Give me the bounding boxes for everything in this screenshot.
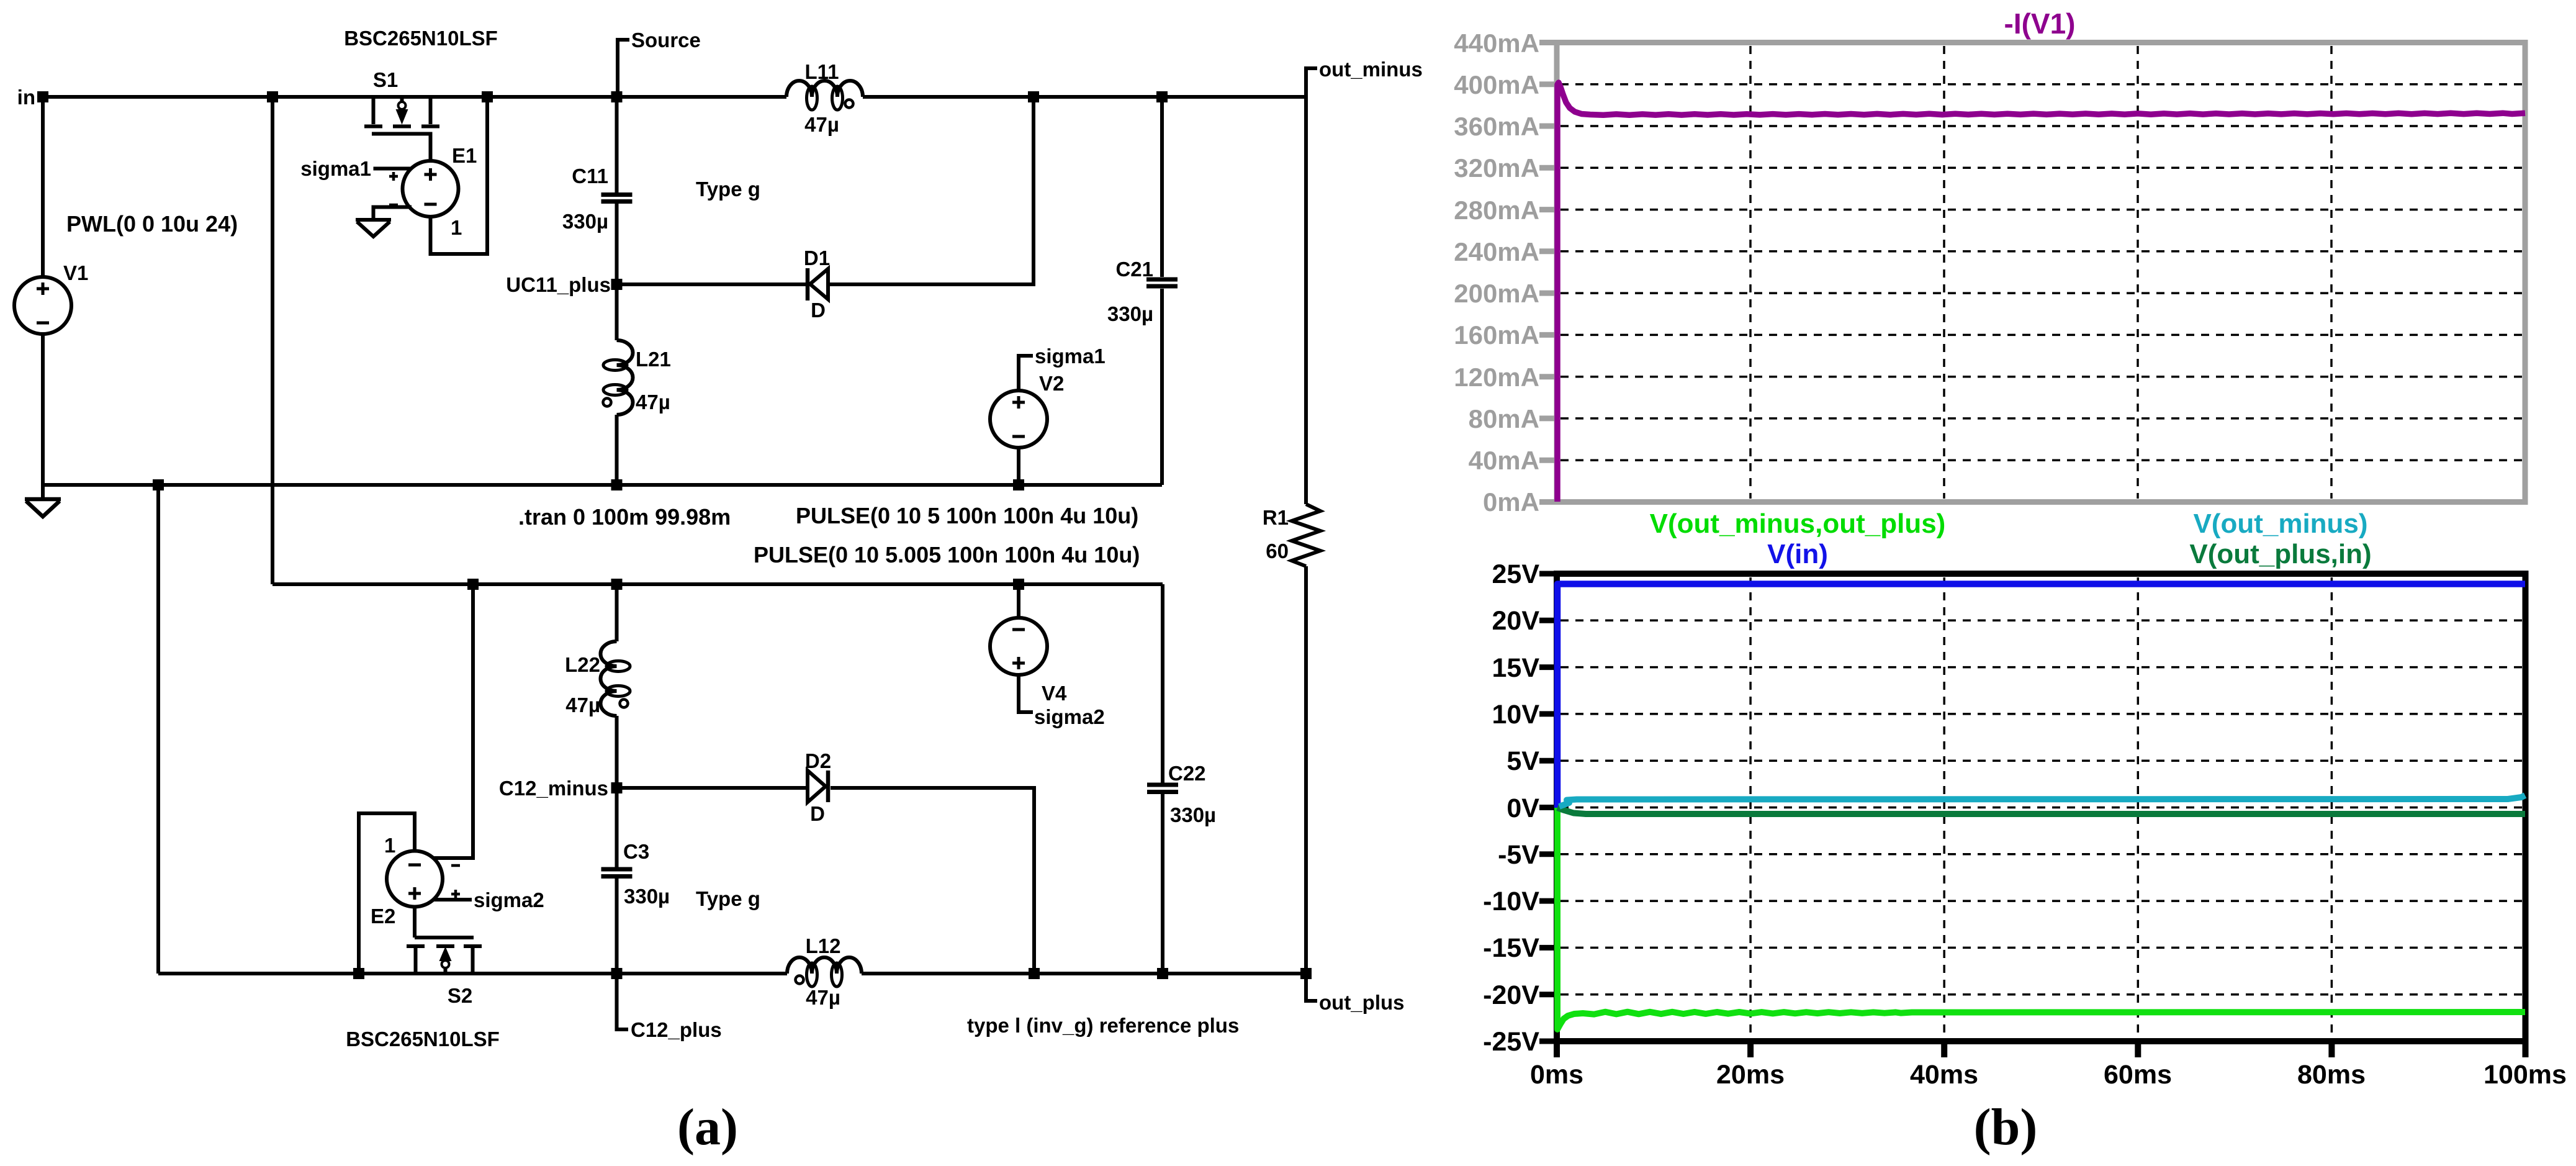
wire lower bottom rail right of L12 xyxy=(862,972,1306,975)
voltage source V1 xyxy=(14,277,71,334)
capacitor C11 xyxy=(601,195,633,202)
svg-text:440mA: 440mA xyxy=(1454,29,1539,58)
svg-text:C12_minus: C12_minus xyxy=(499,777,608,800)
wire top rail L11 to out_minus corner xyxy=(863,95,1306,99)
junction top rail x785 xyxy=(482,91,493,102)
wire S1 gate bar xyxy=(372,134,431,161)
wire lower bottom rail left of L12 xyxy=(158,972,787,975)
wire lower top rail xyxy=(272,582,1163,586)
curve V(out_plus,in) dark green xyxy=(1557,808,2525,814)
svg-text:330µ: 330µ xyxy=(1107,302,1153,325)
chart upper horizontal gridlines xyxy=(1560,84,2522,460)
wire V1 top lead xyxy=(41,97,45,277)
chart upper plot frame xyxy=(1557,43,2525,502)
wire V4 top lead xyxy=(1017,584,1020,618)
op-amp-style VCVS E1 xyxy=(403,161,459,217)
wire C12_plus stub xyxy=(617,974,629,1029)
wire C12_minus row left xyxy=(617,786,807,790)
svg-text:40ms: 40ms xyxy=(1910,1060,1978,1090)
wire L21 bottom lead xyxy=(615,415,619,485)
svg-text:-5V: -5V xyxy=(1498,840,1539,870)
inductor L12 xyxy=(787,957,862,974)
svg-text:Type g: Type g xyxy=(696,887,760,910)
svg-text:.tran 0 100m 99.98m: .tran 0 100m 99.98m xyxy=(518,504,731,530)
curve V(out_minus,out_plus) green xyxy=(1557,808,2525,1029)
svg-text:25V: 25V xyxy=(1492,559,1539,589)
wire C21 bottom lead xyxy=(1160,289,1164,485)
svg-text:(b): (b) xyxy=(1974,1098,2038,1156)
svg-text:V1: V1 xyxy=(63,261,88,284)
svg-text:0V: 0V xyxy=(1506,793,1539,823)
wire ground rail xyxy=(43,483,1162,487)
svg-text:D1: D1 xyxy=(804,246,830,269)
svg-text:360mA: 360mA xyxy=(1454,112,1539,141)
wire in feed vertical to lower cell xyxy=(271,97,274,584)
svg-text:V(in): V(in) xyxy=(1767,539,1828,569)
wire R1 bottom lead xyxy=(1304,566,1308,974)
junction bottom rail x578 xyxy=(353,968,364,979)
svg-text:D: D xyxy=(810,802,825,825)
svg-text:400mA: 400mA xyxy=(1454,70,1539,99)
svg-text:sigma1: sigma1 xyxy=(1035,345,1106,368)
svg-text:40mA: 40mA xyxy=(1469,446,1539,475)
switch S1 xyxy=(364,99,439,127)
inductor L22 xyxy=(601,641,617,716)
svg-text:47µ: 47µ xyxy=(636,391,670,414)
svg-text:47µ: 47µ xyxy=(804,113,839,136)
chart lower plot frame xyxy=(1557,574,2526,1041)
junction bottom rail D2 xyxy=(1029,968,1040,979)
svg-text:out_minus: out_minus xyxy=(1319,58,1423,81)
capacitor C3 xyxy=(601,869,633,877)
svg-text:10V: 10V xyxy=(1492,700,1539,730)
net Source xyxy=(618,40,629,97)
svg-text:Type g: Type g xyxy=(696,178,760,201)
svg-text:47µ: 47µ xyxy=(565,694,600,716)
svg-text:V(out_minus,out_plus): V(out_minus,out_plus) xyxy=(1650,508,1946,539)
wire C22 top lead xyxy=(1161,584,1164,784)
svg-text:PWL(0 0 10u 24): PWL(0 0 10u 24) xyxy=(66,211,238,237)
svg-text:20V: 20V xyxy=(1492,606,1539,636)
diode D1 xyxy=(806,268,810,301)
svg-text:V2: V2 xyxy=(1039,372,1064,395)
svg-text:330µ: 330µ xyxy=(562,210,608,233)
wire E2 to S2 gate xyxy=(413,907,417,938)
ground at V1 xyxy=(25,499,61,517)
junction bottom rail C22 xyxy=(1157,968,1168,979)
wire left return vertical xyxy=(156,485,160,974)
svg-text:60: 60 xyxy=(1266,540,1289,563)
wire E2 minus control pin riser xyxy=(433,584,473,858)
svg-text:PULSE(0 10 5 100n 100n 4u 10u): PULSE(0 10 5 100n 100n 4u 10u) xyxy=(796,503,1138,528)
svg-text:240mA: 240mA xyxy=(1454,237,1539,266)
wire V2 bottom lead xyxy=(1017,448,1020,485)
node in junction xyxy=(37,91,48,102)
svg-text:1: 1 xyxy=(384,834,395,857)
svg-text:47µ: 47µ xyxy=(806,986,840,1009)
junction top rail C11 xyxy=(611,91,623,102)
svg-text:S2: S2 xyxy=(448,984,472,1007)
svg-text:60ms: 60ms xyxy=(2104,1060,2172,1090)
svg-text:D: D xyxy=(811,299,826,322)
voltage source V4 xyxy=(990,618,1047,675)
junction lower rail L22 xyxy=(611,579,623,590)
wire E2 output loop xyxy=(359,813,415,974)
chart lower horizontal gridlines xyxy=(1560,620,2523,994)
svg-text:-10V: -10V xyxy=(1483,887,1539,916)
svg-text:1: 1 xyxy=(451,216,462,239)
svg-text:L11: L11 xyxy=(804,60,839,83)
svg-text:-20V: -20V xyxy=(1483,980,1539,1010)
svg-text:D2: D2 xyxy=(805,749,831,772)
svg-text:V(out_minus): V(out_minus) xyxy=(2193,508,2367,539)
wire C22 bottom lead xyxy=(1161,794,1164,974)
svg-text:320mA: 320mA xyxy=(1454,153,1539,183)
wire C12_minus row right and dropper xyxy=(831,788,1034,974)
junction lower rail V4 xyxy=(1013,579,1024,590)
node UC11_plus junction xyxy=(611,279,623,290)
svg-text:160mA: 160mA xyxy=(1454,320,1539,350)
junction bottom rail out_plus xyxy=(1300,968,1312,979)
wire top rail in to L11 xyxy=(43,95,786,99)
svg-text:sigma2: sigma2 xyxy=(474,888,544,911)
curve -I(V1) purple xyxy=(1557,83,2525,502)
svg-text:E1: E1 xyxy=(452,144,477,167)
wire E2 plus control pin xyxy=(433,898,472,902)
junction top rail x1665 xyxy=(1028,91,1039,102)
node C12_minus junction xyxy=(611,782,623,793)
wire out_plus stub xyxy=(1306,974,1317,1001)
svg-text:UC11_plus: UC11_plus xyxy=(506,273,611,296)
wire C11 top lead xyxy=(615,97,619,192)
svg-text:sigma1: sigma1 xyxy=(300,157,371,180)
svg-text:PULSE(0 10 5.005 100n 100n 4u: PULSE(0 10 5.005 100n 100n 4u 10u) xyxy=(754,542,1140,567)
capacitor C22 xyxy=(1147,785,1178,792)
svg-text:C12_plus: C12_plus xyxy=(631,1018,722,1041)
wire V1 bottom lead xyxy=(41,334,45,499)
wire UC11_plus row right and riser xyxy=(830,97,1034,284)
wire sigma1 hook at V2 xyxy=(1019,356,1033,391)
svg-text:in: in xyxy=(17,86,35,109)
svg-text:BSC265N10LSF: BSC265N10LSF xyxy=(344,27,498,50)
junction bottom rail C3 xyxy=(611,968,623,979)
svg-text:330µ: 330µ xyxy=(1170,803,1216,826)
wire C21 top lead xyxy=(1160,97,1164,277)
junction top rail C21 xyxy=(1156,91,1168,102)
wire UC11_plus row left xyxy=(617,282,806,286)
svg-text:200mA: 200mA xyxy=(1454,279,1539,308)
svg-text:15V: 15V xyxy=(1492,653,1539,683)
curve V(in) blue xyxy=(1557,584,2525,808)
svg-text:-25V: -25V xyxy=(1483,1027,1539,1057)
svg-text:L22: L22 xyxy=(565,653,600,676)
curve V(out_minus) cyan xyxy=(1559,795,2525,807)
wire E1 plus control pin xyxy=(374,167,412,171)
svg-text:C11: C11 xyxy=(572,165,608,188)
wire L22 top lead xyxy=(615,584,619,641)
svg-text:5V: 5V xyxy=(1506,746,1539,776)
svg-text:0mA: 0mA xyxy=(1483,487,1539,517)
svg-text:80ms: 80ms xyxy=(2297,1060,2366,1090)
wire out_minus stub xyxy=(1306,68,1317,97)
inductor L11 xyxy=(786,81,863,97)
chart upper y tick marks xyxy=(1539,43,1554,502)
svg-text:0ms: 0ms xyxy=(1530,1060,1583,1090)
svg-text:R1: R1 xyxy=(1263,506,1289,529)
junction ground rail x255 xyxy=(153,479,164,490)
chart lower x tick marks xyxy=(1557,1044,2526,1057)
chart lower vertical gridlines xyxy=(1750,577,2331,1037)
chart upper vertical gridlines xyxy=(1750,46,2331,499)
wire L22 bottom lead xyxy=(615,716,619,788)
svg-text:L21: L21 xyxy=(636,348,671,371)
svg-text:L12: L12 xyxy=(806,934,841,957)
wire C11 bottom lead xyxy=(615,204,619,284)
svg-text:C3: C3 xyxy=(623,840,649,863)
resistor R1 xyxy=(1292,504,1320,566)
wire C3 top lead xyxy=(615,788,619,867)
wire L21 top lead xyxy=(615,284,619,340)
voltage source V2 xyxy=(990,391,1047,448)
svg-text:V4: V4 xyxy=(1042,682,1067,705)
wire R1 top lead xyxy=(1304,97,1308,504)
VCVS E2 xyxy=(387,851,443,907)
svg-text:-I(V1): -I(V1) xyxy=(2004,7,2076,40)
svg-text:280mA: 280mA xyxy=(1454,196,1539,225)
svg-text:20ms: 20ms xyxy=(1716,1060,1785,1090)
svg-text:sigma2: sigma2 xyxy=(1034,705,1105,728)
svg-text:C22: C22 xyxy=(1168,762,1206,785)
junction ground rail V2 xyxy=(1013,479,1024,490)
svg-text:-15V: -15V xyxy=(1483,933,1539,963)
inductor L21 xyxy=(617,340,633,415)
diode D2 xyxy=(808,771,826,802)
svg-text:S1: S1 xyxy=(373,68,398,91)
svg-text:330µ: 330µ xyxy=(624,885,670,908)
svg-text:C21: C21 xyxy=(1115,258,1153,281)
junction top rail x439 xyxy=(267,91,278,102)
svg-text:type l (inv_g) reference plus: type l (inv_g) reference plus xyxy=(967,1014,1239,1037)
capacitor C21 xyxy=(1146,279,1178,286)
svg-text:80mA: 80mA xyxy=(1469,404,1539,433)
svg-text:Source: Source xyxy=(631,29,701,52)
svg-text:100ms: 100ms xyxy=(2484,1060,2567,1090)
svg-text:E2: E2 xyxy=(371,905,395,928)
svg-text:120mA: 120mA xyxy=(1454,363,1539,392)
svg-text:BSC265N10LSF: BSC265N10LSF xyxy=(346,1028,500,1051)
svg-text:V(out_plus,in): V(out_plus,in) xyxy=(2189,539,2371,569)
wire V4 bottom lead and sigma2 hook xyxy=(1019,675,1033,712)
svg-text:out_plus: out_plus xyxy=(1319,991,1405,1014)
wire E1 minus control pin xyxy=(374,207,412,219)
wire S2 gate bar xyxy=(415,936,474,939)
switch S2 xyxy=(407,946,482,972)
wire C3 bottom lead xyxy=(615,879,619,974)
junction lower rail x762 xyxy=(467,579,479,590)
wire E1 output return loop xyxy=(431,97,488,254)
chart lower y tick marks xyxy=(1539,574,1554,1041)
svg-text:(a): (a) xyxy=(677,1098,738,1156)
ground at E1 xyxy=(356,220,391,237)
junction ground rail L21 xyxy=(611,479,623,490)
